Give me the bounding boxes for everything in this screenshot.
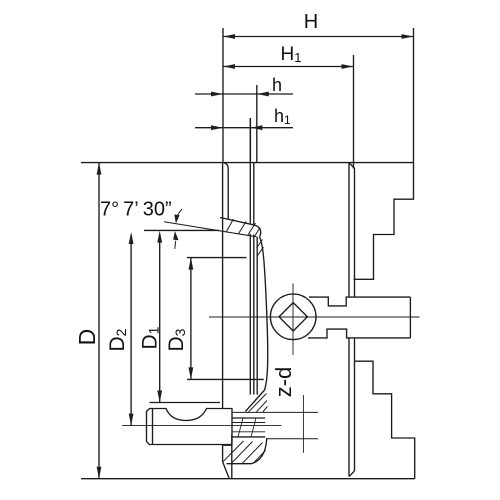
dimension H1 arrow left: [223, 64, 235, 69]
dimension D3 line: [190, 258, 192, 380]
extension line D3 top: [187, 257, 247, 259]
angle leader lower tail: [174, 241, 177, 249]
dimension D arrow bottom: [97, 467, 102, 479]
body bottom edge with D extension: [81, 478, 415, 480]
dimension h arrow left: [211, 92, 223, 97]
dimension D3 arrow top: [189, 258, 194, 270]
screw thread root bottom: [232, 431, 265, 433]
dimension D arrow top: [97, 163, 102, 175]
dimension D2 arrow bottom: [129, 414, 134, 426]
svg-text:D3: D3: [165, 328, 188, 351]
pinion socket circle: [270, 294, 316, 340]
screw thread root top: [232, 422, 265, 424]
angle extension sloped line: [164, 222, 257, 237]
lower pocket hatch 2: [231, 442, 253, 464]
dimension h1 arrow left: [211, 125, 223, 130]
dimension h1 arrow right: [250, 125, 262, 130]
dimension h1 line right tail: [250, 127, 293, 129]
scroll band hatch 3: [248, 223, 256, 235]
body back face: [222, 163, 224, 462]
dimension D2 line: [130, 235, 132, 426]
section vertical line c: [256, 237, 258, 395]
lower band hatch 2: [257, 401, 268, 412]
dimension H extension line left: [222, 28, 224, 163]
body back bottom chamfer: [223, 462, 230, 479]
scroll band hatch 4: [255, 228, 260, 236]
pinion shaft top edge with groove: [309, 297, 410, 306]
pinion horizontal centerline: [209, 316, 420, 318]
front face outer line: [348, 163, 350, 477]
svg-text:D2: D2: [106, 328, 129, 351]
dimension H line: [223, 36, 414, 38]
T-nut inner chamfer line: [152, 409, 154, 445]
bottom jaw steps: [355, 361, 415, 479]
pinion vertical centerline: [292, 284, 294, 356]
body back inner line top: [224, 163, 228, 219]
front face inner line: [354, 169, 356, 472]
dimension H arrow left: [223, 34, 235, 39]
slot curve hatch 2: [257, 247, 263, 256]
dimension H1 extension line right: [353, 55, 355, 169]
svg-text:D: D: [74, 329, 100, 346]
dimension h1 extension line: [249, 118, 251, 163]
pinion shaft right end: [409, 297, 411, 338]
dimension h1 inner line: [223, 127, 250, 129]
section vertical line a: [249, 118, 251, 395]
scroll band hatch 1: [226, 219, 234, 232]
dimension H extension line right: [413, 28, 415, 163]
dimension H arrow right: [402, 34, 414, 39]
lower pocket hatch 1: [223, 441, 244, 462]
scroll band top edge: [220, 218, 261, 237]
svg-text:h: h: [272, 75, 282, 95]
front face bottom chamfer: [349, 471, 355, 477]
extension line D1 top: [144, 229, 219, 231]
extension line D1 bottom: [150, 402, 221, 404]
dimension h1 line left tail: [195, 127, 223, 129]
screw thread tick 2: [251, 418, 256, 437]
section vertical line b: [253, 163, 255, 395]
dimension D1 arrow bottom: [157, 391, 162, 403]
angle leader arrow onto sloped line: [174, 214, 179, 223]
svg-text:H: H: [304, 11, 318, 33]
dimension D3 arrow bottom: [189, 367, 194, 379]
extension line D3 bottom: [187, 378, 264, 380]
dimension H1 arrow right: [342, 64, 354, 69]
angle leader arrow onto horizontal line: [173, 231, 178, 240]
screw thread crest bottom: [232, 436, 265, 438]
svg-text:H1: H1: [281, 44, 302, 65]
lower band hatch 1: [249, 394, 267, 412]
front face top chamfer: [349, 163, 355, 169]
angle leader upper tail: [177, 209, 182, 216]
screw thread tick 1: [238, 418, 243, 437]
dimension h line left tail: [195, 93, 223, 95]
svg-text:h1: h1: [274, 106, 291, 127]
lower pocket arc: [227, 438, 267, 464]
dimension D1 line: [159, 234, 161, 403]
body top edge with D extension: [81, 162, 414, 164]
pinion shaft bottom edge with groove: [308, 329, 410, 338]
dimension h arrow right: [257, 92, 269, 97]
svg-text:z-d: z-d: [271, 367, 296, 398]
body back inner step bottom: [223, 435, 232, 479]
dimension h line right tail: [257, 93, 293, 95]
scroll band hatch 2: [239, 222, 247, 234]
top jaw steps: [354, 163, 414, 280]
dimension H1 line: [223, 66, 354, 68]
dimension D line: [98, 163, 100, 479]
dimension h extension lower part: [256, 85, 258, 163]
screw hole vertical centerline: [302, 395, 304, 453]
slot bottom line: [267, 438, 318, 440]
lower pocket hatch 4: [253, 451, 266, 464]
jaw slot S-curve: [245, 237, 267, 412]
dimension D1 arrow top: [157, 231, 162, 243]
svg-text:D1: D1: [139, 326, 162, 349]
lower pocket hatch 3: [242, 443, 263, 464]
extension line D2 bottom screw centerline: [122, 425, 282, 427]
T-nut block outline: [147, 409, 233, 445]
dimension h inner line: [223, 93, 257, 95]
svg-text:7° 7’ 30”: 7° 7’ 30”: [100, 199, 172, 221]
slot curve hatch 1: [257, 240, 263, 249]
lower band hatch 3: [263, 407, 267, 412]
slot floor line: [232, 411, 318, 413]
screw thread crest top: [232, 417, 265, 419]
pinion square hole: [279, 303, 307, 331]
dimension D2 arrow top: [129, 232, 134, 244]
